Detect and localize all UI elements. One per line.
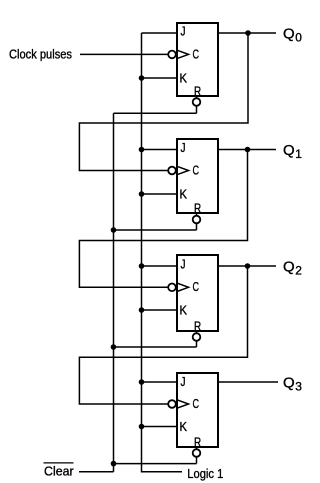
label Clear (overlined) xyxy=(44,463,75,479)
svg-text:R: R xyxy=(194,434,201,449)
flip-flop FF2 box xyxy=(177,139,218,213)
junction Q0 xyxy=(245,30,251,36)
junction R3 xyxy=(111,344,117,350)
svg-text:0: 0 xyxy=(295,31,302,45)
wire R4 to clear bus xyxy=(114,463,197,465)
wire Q1 feedback to C3 xyxy=(79,150,247,288)
svg-text:J: J xyxy=(181,24,186,39)
junction Q1 xyxy=(245,147,251,153)
svg-text:2: 2 xyxy=(295,264,302,278)
pin C4: clock wedge, bubble, label xyxy=(168,396,199,411)
wire K2 input xyxy=(142,193,178,195)
wire Q2 output xyxy=(218,265,276,267)
wire Clear to bus xyxy=(79,471,114,473)
wire Q1 output xyxy=(218,149,276,151)
svg-text:1: 1 xyxy=(295,147,302,161)
wire clock input xyxy=(80,53,169,55)
svg-text:Q: Q xyxy=(283,259,295,276)
svg-text:Clear: Clear xyxy=(44,464,74,479)
svg-text:R: R xyxy=(194,200,201,215)
wire J3 input xyxy=(142,265,178,267)
junction R4/clear xyxy=(111,461,117,467)
svg-text:J: J xyxy=(181,374,186,389)
svg-text:C: C xyxy=(193,279,200,294)
pin R1: label, bubble, stem xyxy=(193,83,202,113)
junction K3 xyxy=(139,307,145,313)
junction K2 xyxy=(139,191,145,197)
wire Q2 feedback to C4 xyxy=(79,266,247,404)
junction J4 xyxy=(139,379,145,385)
pin C3: clock wedge, bubble, label xyxy=(168,279,199,294)
svg-text:R: R xyxy=(194,318,201,333)
pin R3: label, bubble, stem xyxy=(193,318,202,347)
flip-flop FF1 box xyxy=(177,23,218,96)
wire J4 input xyxy=(142,381,178,383)
svg-text:J: J xyxy=(181,140,186,155)
flip-flop FF4 box xyxy=(177,373,218,447)
svg-text:K: K xyxy=(180,186,188,201)
svg-text:K: K xyxy=(180,419,188,434)
wire K4 input xyxy=(142,426,178,428)
svg-text:Clock pulses: Clock pulses xyxy=(9,47,72,61)
node Logic 1 bus xyxy=(142,33,183,472)
pin C2: clock wedge, bubble, label xyxy=(168,162,199,177)
label Q1 xyxy=(283,142,302,161)
wire R2 to clear bus xyxy=(114,229,197,231)
label Q3 xyxy=(283,375,302,394)
svg-text:J: J xyxy=(181,257,186,272)
junction Q2 xyxy=(245,263,251,269)
wire Q3 output xyxy=(218,381,278,383)
svg-text:Logic 1: Logic 1 xyxy=(187,466,223,481)
wire J1 input xyxy=(142,32,178,34)
junction J2 xyxy=(139,147,145,153)
pin R2: label, bubble, stem xyxy=(193,200,202,230)
label Q2 xyxy=(283,259,302,278)
wire R3 to clear bus xyxy=(114,346,197,348)
wire Q0 output xyxy=(218,32,276,34)
wire J2 input xyxy=(142,149,178,151)
svg-text:K: K xyxy=(180,302,188,317)
svg-text:C: C xyxy=(193,162,200,177)
svg-text:R: R xyxy=(194,83,201,98)
wire Q0 feedback to C2 xyxy=(79,33,248,171)
svg-text:Q: Q xyxy=(283,26,295,43)
flip-flop FF3 box xyxy=(177,255,218,331)
pin R4: label, bubble, stem xyxy=(193,434,202,463)
svg-text:C: C xyxy=(193,46,200,61)
svg-text:3: 3 xyxy=(295,380,302,394)
junction J3 xyxy=(139,263,145,269)
node Clear bus xyxy=(113,113,115,471)
svg-text:Q: Q xyxy=(283,375,295,392)
junction K4 xyxy=(139,424,145,430)
label Q0 xyxy=(283,26,302,45)
svg-text:Q: Q xyxy=(283,142,295,159)
svg-text:K: K xyxy=(180,70,188,85)
wire K1 input xyxy=(142,77,178,79)
pin C1: clock wedge, bubble, label xyxy=(168,46,199,61)
junction R2 xyxy=(111,227,117,233)
wire K3 input xyxy=(142,309,178,311)
junction K1 xyxy=(139,75,145,81)
wire R1 to clear bus xyxy=(114,112,197,114)
svg-text:C: C xyxy=(193,396,200,411)
